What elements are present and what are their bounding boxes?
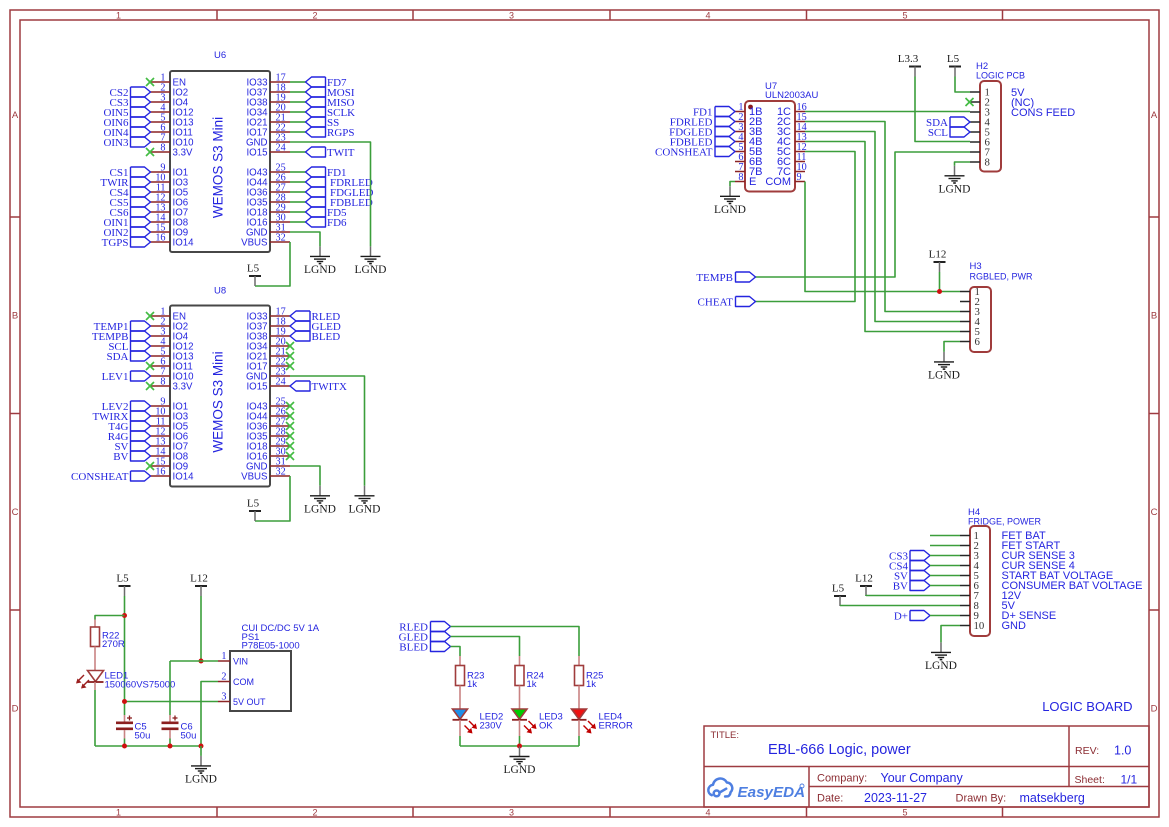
svg-text:2023-11-27: 2023-11-27: [864, 791, 927, 805]
svg-text:FRIDGE, POWER: FRIDGE, POWER: [968, 517, 1042, 527]
wire H2 pin8 to LGND: [955, 162, 971, 166]
capacitor C5 50u: [116, 715, 150, 742]
svg-text:1/1: 1/1: [1121, 773, 1138, 787]
svg-text:FD6: FD6: [327, 217, 347, 229]
net label FDBLED at U7: [670, 136, 735, 148]
no-connect U8 pin 1: [146, 312, 154, 320]
ground LGND U6 right: [355, 246, 387, 276]
text Company: [817, 771, 963, 785]
svg-text:CONSHEAT: CONSHEAT: [655, 146, 713, 158]
svg-text:3.3V: 3.3V: [173, 381, 193, 392]
svg-text:1k: 1k: [527, 679, 537, 690]
text LOGIC BOARD: [1042, 699, 1132, 714]
svg-text:TGPS: TGPS: [102, 237, 129, 249]
svg-text:10: 10: [974, 620, 985, 632]
no-connect U8 pin 22: [286, 362, 294, 370]
no-connect U8 pin 25: [286, 402, 294, 410]
wire L5 to H4 pin8: [840, 605, 960, 607]
wire U6 FDRLED: [290, 181, 306, 183]
text Drawn By: [956, 791, 1085, 805]
no-connect U8 pin 21: [286, 352, 294, 360]
wire rail to LGND: [200, 746, 202, 756]
title block table: [704, 726, 1149, 807]
net label FD1: [306, 167, 347, 179]
junction rail C6: [168, 744, 173, 749]
svg-text:C: C: [12, 507, 19, 518]
wire LED4 to rail: [578, 720, 580, 746]
svg-text:IO14: IO14: [173, 471, 195, 482]
wire U7 E to LGND: [730, 182, 735, 187]
svg-text:LOGIC BOARD: LOGIC BOARD: [1042, 699, 1132, 714]
IC U7 ULN2003AU: [735, 81, 818, 192]
no-connect U8 pin 30: [286, 452, 294, 460]
svg-text:L3.3: L3.3: [898, 53, 919, 65]
ground LGND PS1: [185, 756, 217, 786]
svg-text:RGPS: RGPS: [327, 127, 355, 139]
ground LGND U8 right: [349, 486, 381, 516]
svg-text:BLED: BLED: [399, 641, 428, 653]
wire C5 to rail: [124, 739, 126, 747]
net label SV: [114, 441, 150, 453]
svg-text:OIN3: OIN3: [103, 137, 129, 149]
power L12 at PS1: [190, 573, 208, 597]
junction H3 pin1: [937, 289, 942, 294]
wire L5 to H2 pin1: [955, 77, 970, 93]
ground LGND H4: [925, 642, 957, 672]
svg-text:2: 2: [312, 10, 317, 20]
wire 5V OUT: [125, 701, 219, 703]
resistor R24 1k: [515, 656, 544, 690]
no-connect U6 pin 8: [146, 148, 154, 156]
net label CONSHEAT: [71, 471, 150, 483]
no-connect U8 pin 8: [146, 382, 154, 390]
wire U7 4C to H3 pin5: [805, 142, 960, 332]
svg-text:WEMOS S3 Mini: WEMOS S3 Mini: [211, 351, 226, 452]
wire U6 FDGLED: [290, 191, 306, 193]
svg-text:LGND: LGND: [304, 503, 336, 515]
net label TEMPB: [92, 331, 151, 343]
svg-text:BV: BV: [113, 451, 128, 463]
svg-text:OK: OK: [539, 721, 553, 732]
svg-text:COM: COM: [765, 176, 791, 188]
svg-text:ERROR: ERROR: [599, 721, 633, 732]
svg-text:L5: L5: [947, 53, 960, 65]
svg-text:Company:: Company:: [817, 773, 867, 785]
svg-text:270R: 270R: [102, 639, 125, 650]
wire U6 RGPS: [290, 131, 306, 133]
svg-text:LGND: LGND: [714, 204, 746, 216]
connector H4 FRIDGE, POWER: [960, 507, 1143, 636]
net label OIN5: [103, 107, 150, 119]
svg-text:SDA: SDA: [106, 351, 128, 363]
svg-text:D: D: [12, 704, 19, 715]
junction VIN: [199, 659, 204, 664]
svg-text:B: B: [1151, 311, 1157, 322]
net label FDGLED at U7: [669, 126, 735, 138]
svg-text:3: 3: [509, 807, 514, 817]
svg-text:LOGIC PCB: LOGIC PCB: [976, 71, 1025, 81]
wire H4 D+: [930, 615, 960, 617]
wire U6 MOSI: [290, 91, 306, 93]
net label TEMPB: [696, 272, 755, 284]
LED LED3 OK: [512, 709, 563, 734]
wire H4 pin2: [930, 545, 960, 547]
wire U6 FD1: [290, 171, 306, 173]
svg-text:150060VS75000: 150060VS75000: [105, 680, 176, 691]
svg-text:3: 3: [509, 10, 514, 20]
net label FDRLED at U7: [670, 116, 735, 128]
text Sheet: [1075, 773, 1138, 787]
wire H4 SV: [930, 575, 960, 577]
wire GLED to R24: [451, 637, 520, 657]
svg-text:16: 16: [155, 467, 165, 478]
connector H2 LOGIC PCB: [970, 61, 1075, 172]
svg-text:LGND: LGND: [925, 660, 957, 672]
svg-text:U8: U8: [214, 286, 226, 297]
svg-text:5V OUT: 5V OUT: [233, 697, 266, 707]
svg-text:3: 3: [221, 692, 226, 703]
net label CS6: [110, 207, 151, 219]
wire C6 top: [169, 661, 171, 715]
net label OIN4: [103, 127, 150, 139]
svg-text:LGND: LGND: [355, 264, 387, 276]
svg-text:CONSUMER BAT VOLTAGE: CONSUMER BAT VOLTAGE: [1002, 580, 1143, 592]
svg-text:LGND: LGND: [185, 773, 217, 785]
net label SCLK: [306, 107, 356, 119]
net label TEMP1: [94, 321, 151, 333]
svg-text:50u: 50u: [135, 731, 151, 742]
net label FD5: [306, 207, 348, 219]
svg-text:E: E: [749, 176, 756, 188]
net label RLED at LEDs: [399, 621, 450, 633]
wire BLED to R23: [451, 647, 461, 657]
svg-text:A: A: [12, 110, 19, 121]
svg-text:C: C: [1151, 507, 1158, 518]
ground LGND H3: [928, 352, 960, 382]
wire U7 COM to H3 pin1: [805, 182, 960, 292]
text TITLE:: [711, 730, 740, 741]
wire U6 FD6: [290, 221, 306, 223]
net label FD1 at U7: [693, 106, 735, 118]
svg-text:ULN2003AU: ULN2003AU: [765, 90, 818, 101]
svg-text:8: 8: [160, 143, 165, 154]
net label D+: [894, 610, 930, 622]
svg-text:9: 9: [797, 172, 802, 183]
net label CHEAT: [698, 296, 756, 308]
svg-text:BLED: BLED: [312, 331, 341, 343]
LED LED2 230V: [453, 709, 504, 734]
junction 5V OUT: [122, 699, 127, 704]
svg-text:matsekberg: matsekberg: [1020, 791, 1085, 805]
no-connect U8 pin 15: [146, 462, 154, 470]
LED LED4 ERROR: [572, 709, 633, 734]
wire U6 GND pin23 to LGND: [290, 142, 371, 246]
svg-text:L12: L12: [855, 573, 873, 585]
svg-text:L12: L12: [190, 573, 208, 585]
wire U8 GND pin23 to LGND: [290, 376, 365, 486]
svg-text:P78E05-1000: P78E05-1000: [242, 641, 300, 652]
net label TWIR: [100, 177, 150, 189]
svg-text:BV: BV: [893, 580, 908, 592]
net label TWITX: [290, 381, 347, 393]
svg-text:8: 8: [985, 157, 990, 169]
net label MISO: [306, 97, 355, 109]
net label SCL at H2: [928, 127, 970, 139]
wire L12 down to VIN: [200, 596, 202, 661]
svg-text:1: 1: [221, 651, 226, 662]
wire U6 FD5: [290, 211, 306, 213]
power L5 at H4: [832, 583, 846, 607]
logo EasyEDA: [708, 778, 805, 801]
wire U6 VBUS to L5: [255, 242, 290, 286]
wire H4 BV: [930, 585, 960, 587]
svg-text:REV:: REV:: [1075, 745, 1099, 757]
net label OIN1: [103, 217, 150, 229]
svg-text:1k: 1k: [467, 679, 477, 690]
net label OIN6: [103, 117, 150, 129]
wire U6 FD7: [290, 81, 306, 83]
svg-text:CHEAT: CHEAT: [698, 296, 734, 308]
wire U7 1C to H2 pin3: [805, 111, 970, 113]
wire H3 pin6 to LGND: [944, 342, 960, 352]
power L5 at H2: [947, 53, 961, 77]
wire R23 to LED2: [459, 686, 461, 710]
svg-text:8: 8: [160, 377, 165, 388]
IC PS1 P78E05-1000: [218, 623, 320, 711]
resistor R25 1k: [575, 656, 604, 690]
net label SS: [306, 117, 340, 129]
net label FDBLED: [306, 197, 373, 209]
svg-text:6: 6: [975, 336, 981, 348]
wire ground rail PS1: [95, 745, 201, 747]
svg-text:IO15: IO15: [246, 381, 267, 392]
power L5 under U6: [247, 263, 261, 287]
net label CS3: [110, 97, 151, 109]
wire U8 VBUS to L5: [255, 476, 290, 521]
wire TEMPB to H2 pin7: [756, 152, 971, 277]
text REV: 1.0: [1075, 744, 1131, 758]
net label SCL: [108, 341, 150, 353]
frame column numbers: [116, 10, 908, 817]
wire H4 pin1: [930, 535, 960, 537]
wire U6 SS: [290, 121, 306, 123]
svg-text:50u: 50u: [181, 731, 197, 742]
net label LEV1: [102, 371, 151, 383]
wire RLED to R25: [451, 627, 580, 657]
svg-text:WEMOS S3 Mini: WEMOS S3 Mini: [211, 117, 226, 218]
svg-text:LGND: LGND: [504, 764, 536, 776]
net label CS1: [110, 167, 151, 179]
wire U6 FDBLED: [290, 201, 306, 203]
svg-text:24: 24: [276, 377, 286, 388]
net label RLED: [290, 311, 340, 323]
svg-text:LGND: LGND: [349, 503, 381, 515]
ground LGND U6 left: [304, 246, 336, 276]
svg-text:D+: D+: [894, 610, 908, 622]
net label FDRLED: [306, 177, 373, 189]
net label BLED at LEDs: [399, 641, 450, 653]
svg-text:A: A: [1151, 110, 1158, 121]
net label OIN3: [103, 137, 150, 149]
no-connect H2 pin 2: [966, 98, 974, 106]
net label RGPS: [306, 127, 355, 139]
svg-text:L12: L12: [929, 249, 947, 261]
resistor R22 270R: [91, 620, 125, 651]
no-connect U8 pin 27: [286, 422, 294, 430]
svg-text:U6: U6: [214, 50, 226, 61]
wire L5 down to C5: [124, 596, 126, 715]
svg-text:32: 32: [276, 233, 286, 244]
resistor R23 1k: [456, 656, 485, 690]
wire U6 SCLK: [290, 111, 306, 113]
wire R22 to LED1: [94, 647, 96, 671]
net label SDA at H2: [926, 117, 970, 129]
net label SV at H4: [894, 570, 930, 582]
wire to R22: [95, 616, 125, 620]
frame row letters: [12, 110, 1158, 715]
svg-text:L5: L5: [832, 583, 845, 595]
svg-text:TWIT: TWIT: [327, 147, 355, 159]
svg-text:RGBLED, PWR: RGBLED, PWR: [970, 272, 1034, 282]
wire H4 CS3: [930, 555, 960, 557]
net label CS4 at H4: [889, 560, 930, 572]
no-connect U8 pin 6: [146, 362, 154, 370]
svg-text:L5: L5: [116, 573, 129, 585]
wire LED ground rail: [460, 745, 579, 747]
wire H4 CS4: [930, 565, 960, 567]
no-connect U8 pin 20: [286, 342, 294, 350]
svg-text:LGND: LGND: [939, 183, 971, 195]
LED LED1 150060VS75000: [76, 671, 175, 691]
svg-text:LGND: LGND: [304, 264, 336, 276]
svg-text:2: 2: [221, 672, 226, 683]
svg-text:IO14: IO14: [173, 237, 195, 248]
IC U6 WEMOS S3 Mini: [150, 50, 290, 252]
junction rail LGND: [199, 744, 204, 749]
svg-text:GND: GND: [1002, 620, 1027, 632]
wire L3.3 to H2 pin6: [915, 77, 970, 142]
net label T4G: [108, 421, 150, 433]
no-connect U8 pin 26: [286, 412, 294, 420]
no-connect U8 pin 28: [286, 432, 294, 440]
svg-text:TWITX: TWITX: [312, 381, 347, 393]
wire VIN rail: [170, 660, 218, 662]
svg-text:4: 4: [705, 10, 710, 20]
wire U7 5C to CHEAT: [756, 152, 856, 302]
power L12 at H4: [855, 573, 873, 597]
svg-text:Drawn By:: Drawn By:: [956, 793, 1007, 805]
net label CS4: [110, 187, 151, 199]
net label FD6: [306, 217, 348, 229]
svg-text:3.3V: 3.3V: [173, 147, 193, 158]
svg-text:Date:: Date:: [817, 793, 843, 805]
ground LGND U7: [714, 186, 746, 216]
wire L12 to H4 pin7: [866, 595, 960, 598]
wire LED2 to rail: [459, 720, 461, 746]
net label FD7: [306, 77, 348, 89]
capacitor C6 50u: [162, 715, 197, 742]
svg-text:32: 32: [276, 467, 286, 478]
svg-text:B: B: [12, 311, 18, 322]
svg-text:8: 8: [738, 172, 743, 183]
junction rail C5: [122, 744, 127, 749]
svg-text:LEV1: LEV1: [102, 371, 129, 383]
wire L12 to H3 pin1: [939, 272, 941, 292]
svg-text:Sheet:: Sheet:: [1075, 774, 1105, 786]
svg-text:4: 4: [705, 807, 710, 817]
wire U8 GND pin31 to LGND: [290, 466, 320, 486]
svg-text:2: 2: [312, 807, 317, 817]
svg-text:D: D: [1151, 704, 1158, 715]
svg-text:1: 1: [116, 10, 121, 20]
wire U6 GND pin31 to LGND: [290, 232, 320, 246]
net label BV: [113, 451, 150, 463]
wire U6 MISO: [290, 101, 306, 103]
wire R24 to LED3: [519, 686, 521, 710]
svg-text:VIN: VIN: [233, 656, 248, 666]
svg-text:CONSHEAT: CONSHEAT: [71, 471, 129, 483]
power L5 under U8: [247, 498, 261, 522]
svg-text:EBL-666 Logic, power: EBL-666 Logic, power: [768, 742, 911, 758]
svg-text:VBUS: VBUS: [241, 471, 268, 482]
power L3.3: [898, 53, 921, 77]
svg-text:L5: L5: [247, 498, 260, 510]
text EBL-666 Logic, power: [768, 742, 911, 758]
net label TWIT: [306, 147, 355, 159]
wire C6 to rail: [169, 739, 171, 747]
wire COM to ground rail: [201, 682, 218, 747]
svg-text:230V: 230V: [480, 721, 503, 732]
net label MOSI: [306, 87, 355, 99]
net label OIN2: [103, 227, 150, 239]
svg-text:16: 16: [155, 233, 165, 244]
IC U8 WEMOS S3 Mini: [150, 286, 290, 487]
net label BV at H4: [893, 580, 930, 592]
net label TGPS: [102, 237, 151, 249]
svg-text:24: 24: [276, 143, 286, 154]
power L5 at PS1: [116, 573, 130, 597]
wire LED1 to ground rail: [94, 682, 96, 746]
svg-text:1: 1: [116, 807, 121, 817]
wire U7 3C to H3 pin4: [805, 132, 960, 322]
junction L5/R22: [122, 613, 127, 618]
svg-text:1.0: 1.0: [1114, 744, 1131, 758]
text Date: [817, 791, 927, 805]
wire U6 TWIT: [290, 151, 306, 153]
ground LGND H2: [939, 166, 971, 196]
svg-text:VBUS: VBUS: [241, 237, 268, 248]
net label GLED at LEDs: [399, 631, 451, 643]
ground LGND U8 left: [304, 486, 336, 516]
ground LGND LEDs: [504, 747, 536, 777]
svg-text:H3: H3: [970, 261, 982, 272]
net label GLED: [290, 321, 341, 333]
svg-text:5: 5: [902, 807, 907, 817]
power L12 at H3: [929, 249, 947, 273]
net label R4G: [108, 431, 151, 443]
svg-text:LGND: LGND: [928, 369, 960, 381]
svg-text:Your Company: Your Company: [881, 771, 964, 785]
connector H3 RGBLED, PWR: [960, 261, 1033, 352]
svg-text:IO15: IO15: [246, 147, 267, 158]
wire U7 2C to H3 pin3: [805, 122, 960, 312]
net label CONSHEAT at U7: [655, 146, 735, 158]
net label SDA: [106, 351, 150, 363]
net label CS5: [110, 197, 151, 209]
junction LED rail: [517, 744, 522, 749]
net label BLED: [290, 331, 340, 343]
svg-text:1k: 1k: [586, 679, 596, 690]
